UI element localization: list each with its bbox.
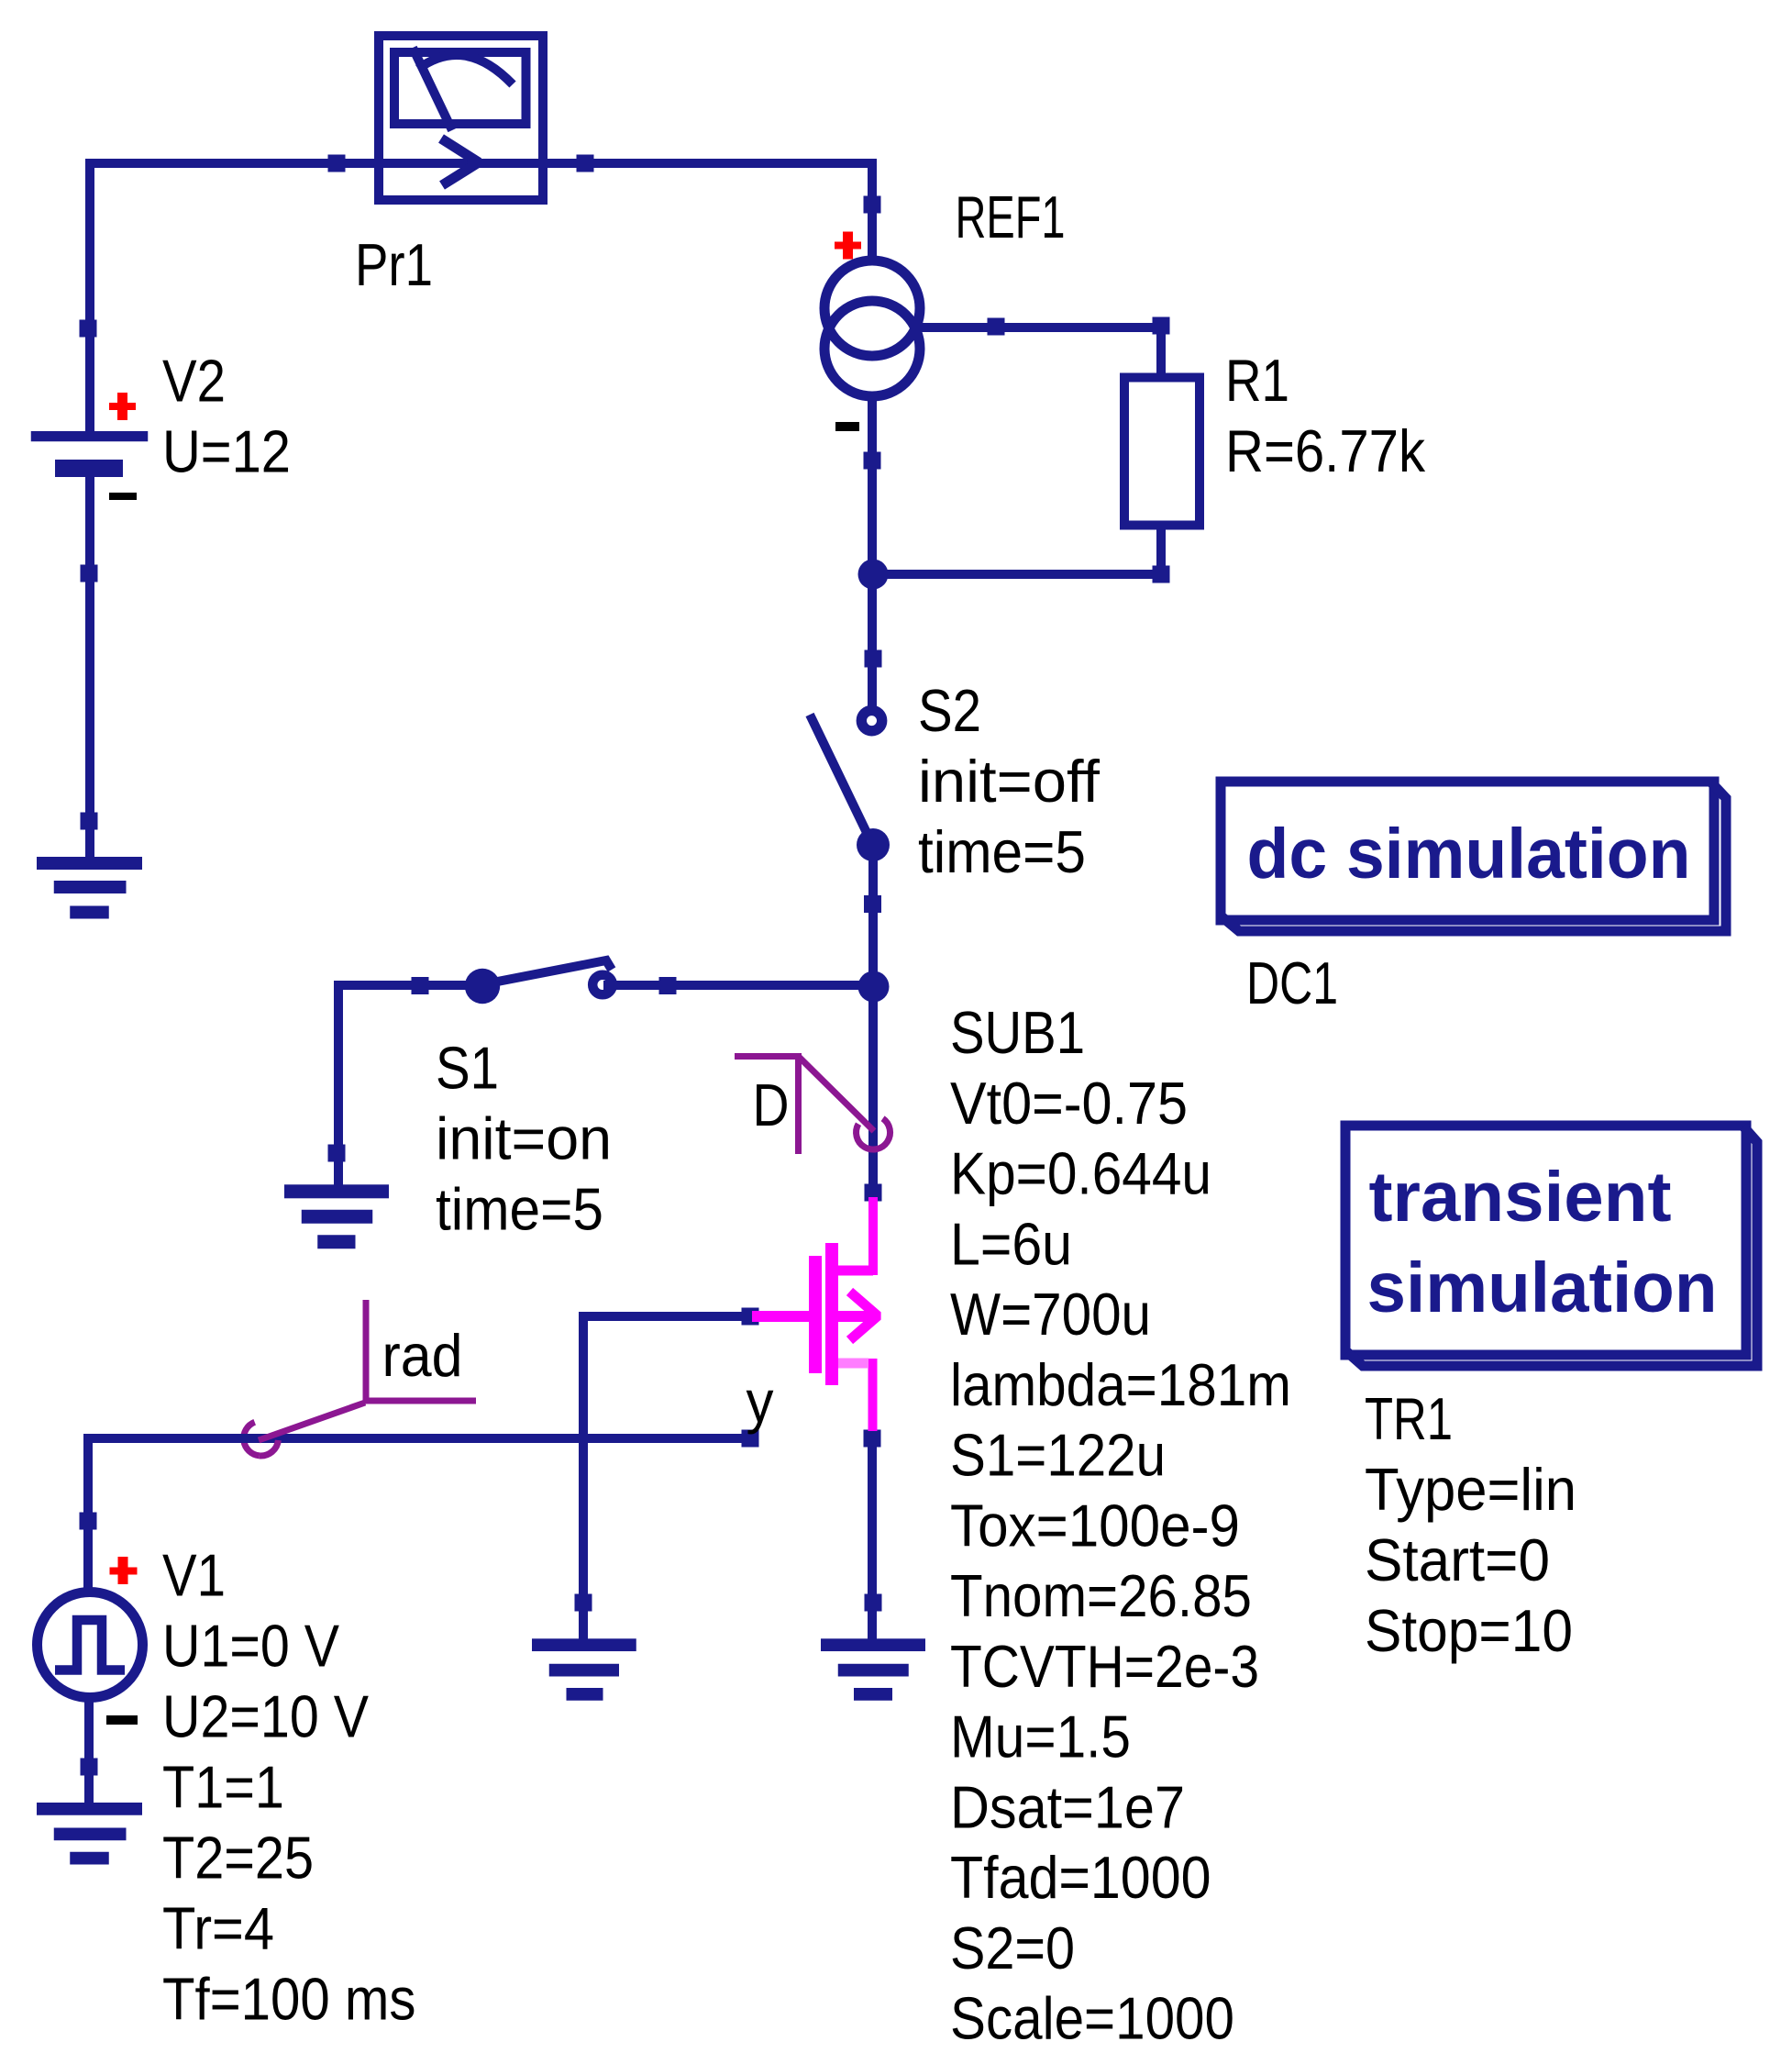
svg-text:time=5: time=5	[918, 818, 1086, 885]
pin pad: ground pin below MOSFET source	[865, 1594, 882, 1612]
ammeter Pr1 scale arc	[418, 55, 513, 84]
svg-text:SUB1: SUB1	[950, 999, 1085, 1066]
node rad: label hook lines	[259, 1300, 476, 1456]
svg-text:T1=1: T1=1	[162, 1753, 284, 1820]
svg-text:transient: transient	[1369, 1158, 1672, 1237]
pin pad: ammeter Pr1 left pin	[328, 155, 346, 172]
pin pad: REF1 plus pin	[864, 196, 881, 214]
svg-text:Type=lin: Type=lin	[1365, 1456, 1576, 1523]
pin pad: ammeter Pr1 right pin	[577, 155, 594, 172]
svg-text:REF1: REF1	[956, 183, 1066, 250]
svg-text:Mu=1.5: Mu=1.5	[950, 1703, 1131, 1770]
ground below V2	[37, 857, 142, 919]
dc simulation box DC1	[1221, 782, 1726, 931]
svg-text:U1=0 V: U1=0 V	[162, 1612, 340, 1679]
minus sign of REF1	[835, 422, 859, 431]
wire: V2 plus up, across ammeter Pr1, down to REF1 plus	[90, 163, 872, 435]
node D: label hook	[735, 1053, 890, 1154]
switch S1 contact dot	[465, 969, 500, 1004]
pin pad: S1 left pin	[412, 977, 429, 994]
MOSFET SUB1 gate bar	[809, 1256, 822, 1373]
switch S1 blade	[483, 960, 612, 984]
plus sign of V1	[110, 1557, 138, 1584]
svg-text:Tox=100e-9: Tox=100e-9	[950, 1492, 1240, 1559]
svg-text:Kp=0.644u: Kp=0.644u	[950, 1140, 1211, 1207]
pin pad: MOSFET gate pin	[742, 1308, 759, 1326]
pin pad: MOSFET drain pin	[865, 1184, 882, 1202]
node rad: label hook arc (lower-left part, drawn under wire)	[244, 1422, 260, 1456]
pin pad: REF1 minus pin	[864, 452, 881, 470]
svg-text:D: D	[753, 1071, 790, 1138]
svg-text:Scale=1000: Scale=1000	[950, 1985, 1234, 2052]
svg-text:Pr1: Pr1	[355, 231, 433, 298]
ammeter Pr1 needle	[413, 48, 452, 130]
wire: REF1 minus down to switch S2	[868, 397, 877, 706]
svg-text:Stop=10: Stop=10	[1365, 1597, 1573, 1664]
svg-text:Dsat=1e7: Dsat=1e7	[950, 1773, 1185, 1840]
ground below S1	[284, 1184, 389, 1248]
switch S2 contact dot	[857, 828, 890, 861]
pin pad: R1 top pin	[1153, 317, 1170, 335]
junction node at S1/S2/MOSFET drain	[858, 971, 890, 1003]
svg-text:DC1: DC1	[1246, 949, 1338, 1016]
svg-text:Tf=100 ms: Tf=100 ms	[162, 1965, 416, 2032]
MOSFET SUB1 gate lead	[752, 1311, 813, 1322]
pin pad: S2 bottom pin	[864, 895, 881, 913]
svg-text:time=5: time=5	[436, 1175, 603, 1242]
svg-text:S2: S2	[918, 677, 981, 744]
ground below V1	[37, 1803, 142, 1865]
svg-text:W=700u: W=700u	[950, 1281, 1151, 1348]
svg-text:Tfad=1000: Tfad=1000	[950, 1844, 1211, 1911]
wire: V1 minus down to ground	[84, 1694, 94, 1812]
pin pad: R1 bottom pin	[1153, 566, 1170, 583]
switch S1 open contact ring	[592, 975, 613, 995]
svg-text:S2=0: S2=0	[950, 1914, 1075, 1981]
minus sign of V1	[106, 1715, 138, 1725]
svg-text:R=6.77k: R=6.77k	[1225, 417, 1425, 484]
svg-text:simulation: simulation	[1367, 1248, 1718, 1327]
pin pad: wire end at node y	[742, 1430, 759, 1448]
svg-text:S1=122u: S1=122u	[950, 1422, 1166, 1489]
wire: MOSFET gate left then down to ground	[583, 1316, 750, 1639]
MOSFET SUB1 channel bar	[825, 1243, 838, 1385]
wire: node y from V1 plus	[88, 1438, 750, 1596]
ammeter Pr1 meter window	[394, 52, 526, 124]
battery V2 positive plate	[31, 431, 149, 441]
wire: R1 bottom across to junction node	[873, 570, 1161, 579]
svg-text:TR1: TR1	[1365, 1385, 1453, 1452]
minus sign of V2	[109, 493, 137, 500]
MOSFET SUB1 bulk arrow head	[850, 1292, 879, 1340]
pin pad: S2 top pin	[865, 650, 882, 668]
switch S2 blade	[810, 715, 871, 842]
wire: R1 bottom lead	[1156, 526, 1166, 574]
pin pad: REF1 side pin	[988, 318, 1005, 336]
pin pad: ground pin below V2	[81, 813, 98, 830]
switch S2 open contact ring	[861, 710, 881, 730]
pin pad: S1 right pin	[659, 977, 677, 994]
pin pad: ground pin below S1	[328, 1145, 346, 1162]
junction node at R1 bottom	[858, 560, 889, 590]
svg-text:V2: V2	[162, 348, 226, 415]
battery V2 negative plate	[55, 460, 123, 477]
svg-text:T2=25: T2=25	[162, 1824, 314, 1891]
ground below gate wire	[532, 1638, 636, 1700]
ammeter Pr1 current arrow	[441, 139, 479, 185]
current source REF1	[824, 261, 920, 396]
wire: S1 right contact to junction node	[603, 981, 873, 990]
wire: S2 contact down through junction to MOSFET drain	[868, 845, 878, 1193]
svg-text:S1: S1	[436, 1034, 499, 1101]
pin pad: V2 minus pin	[81, 565, 98, 583]
pin pad: V1 plus pin	[80, 1513, 97, 1530]
MOSFET SUB1 source lead	[868, 1359, 878, 1431]
svg-text:lambda=181m: lambda=181m	[950, 1351, 1291, 1418]
plus sign of V2	[109, 393, 136, 420]
MOSFET SUB1 drain lead	[868, 1197, 878, 1275]
pin pad: V2 plus pin	[80, 320, 97, 338]
pin pad: ground pin below gate wire	[575, 1594, 592, 1612]
pulse source V1 circle	[38, 1592, 143, 1698]
svg-text:y: y	[747, 1368, 774, 1435]
MOSFET SUB1 drain stub	[838, 1266, 873, 1276]
svg-text:Start=0: Start=0	[1365, 1526, 1550, 1593]
MOSFET SUB1 bulk arrow shaft	[838, 1311, 878, 1322]
svg-text:rad: rad	[382, 1322, 463, 1389]
ammeter Pr1 outer case	[379, 36, 543, 200]
svg-text:Tr=4: Tr=4	[162, 1894, 274, 1961]
svg-text:U2=10 V: U2=10 V	[162, 1682, 370, 1749]
svg-text:dc simulation: dc simulation	[1247, 815, 1691, 893]
MOSFET SUB1 source stub (light pink)	[838, 1359, 868, 1369]
plus sign of REF1	[835, 232, 861, 260]
svg-text:R1: R1	[1225, 347, 1289, 414]
wire: S1 left lead and down to ground	[338, 985, 482, 1194]
svg-text:init=on: init=on	[436, 1104, 612, 1171]
pin pad: MOSFET source pin	[864, 1430, 881, 1448]
transient simulation box TR1	[1345, 1126, 1757, 1366]
svg-text:V1: V1	[162, 1541, 226, 1608]
svg-text:U=12: U=12	[162, 418, 291, 485]
svg-text:TCVTH=2e-3: TCVTH=2e-3	[950, 1633, 1259, 1700]
pin pad: V1 minus pin	[81, 1759, 98, 1776]
svg-text:Vt0=-0.75: Vt0=-0.75	[950, 1070, 1188, 1137]
svg-text:init=off: init=off	[918, 748, 1101, 815]
svg-text:Tnom=26.85: Tnom=26.85	[950, 1562, 1252, 1629]
svg-text:L=6u: L=6u	[950, 1210, 1072, 1277]
wire: REF1 side lead right and down to R1 top	[917, 327, 1161, 378]
pulse source V1 pulse waveform	[55, 1620, 125, 1670]
wire: V2 minus down to ground	[85, 474, 94, 866]
ground below MOSFET source	[821, 1638, 925, 1700]
wire: MOSFET source down to ground	[868, 1445, 877, 1639]
resistor R1	[1124, 378, 1200, 526]
